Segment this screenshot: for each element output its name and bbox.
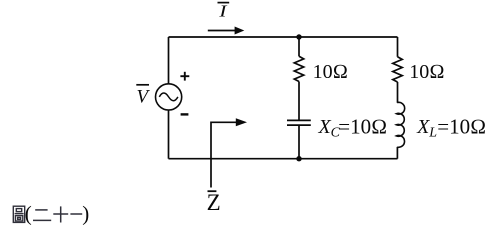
current arrow I <box>208 27 245 35</box>
wire middle branch upper lead <box>298 37 300 56</box>
wire between R1 and C1 <box>298 82 300 121</box>
wire left upper <box>168 37 170 84</box>
impedance arrow Z <box>211 118 247 187</box>
caption glyph YI (one) <box>70 213 82 215</box>
svg-text:X: X <box>318 116 332 138</box>
capacitor C1 <box>287 120 311 125</box>
wire right branch upper lead <box>397 37 399 57</box>
label L1 value XL=10 ohm <box>416 114 486 140</box>
caption glyph SHI (ten) <box>53 206 68 222</box>
svg-text:=10Ω: =10Ω <box>338 114 387 138</box>
label V <box>136 85 150 108</box>
wire below C1 <box>298 125 300 159</box>
label Z <box>207 190 221 215</box>
svg-text:10Ω: 10Ω <box>409 61 444 83</box>
svg-text:(: ( <box>25 201 32 225</box>
svg-text:10Ω: 10Ω <box>313 61 348 83</box>
svg-text:Z: Z <box>207 190 221 215</box>
svg-text:L: L <box>428 126 437 141</box>
label C1 value XC=10 ohm <box>318 114 388 140</box>
plus terminal <box>180 72 189 81</box>
resistor R1 <box>294 56 303 81</box>
resistor R2 <box>393 57 402 82</box>
svg-text:): ) <box>82 201 89 225</box>
source V1 (AC voltage source) <box>156 84 182 110</box>
wire top <box>169 36 398 38</box>
svg-text:=10Ω: =10Ω <box>437 114 486 138</box>
caption glyph ER (two) <box>33 210 51 221</box>
label I <box>218 3 230 21</box>
caption figure 21 glyph TU <box>13 206 24 222</box>
wire bottom <box>169 158 398 160</box>
node bottom junction <box>296 156 301 161</box>
wire between R2 and L1 <box>397 82 399 103</box>
wire left lower <box>168 110 170 159</box>
wire below L1 <box>396 147 398 159</box>
inductor L1 <box>396 102 404 147</box>
node top junction <box>296 34 301 39</box>
svg-text:X: X <box>416 116 430 138</box>
minus terminal <box>181 113 189 115</box>
